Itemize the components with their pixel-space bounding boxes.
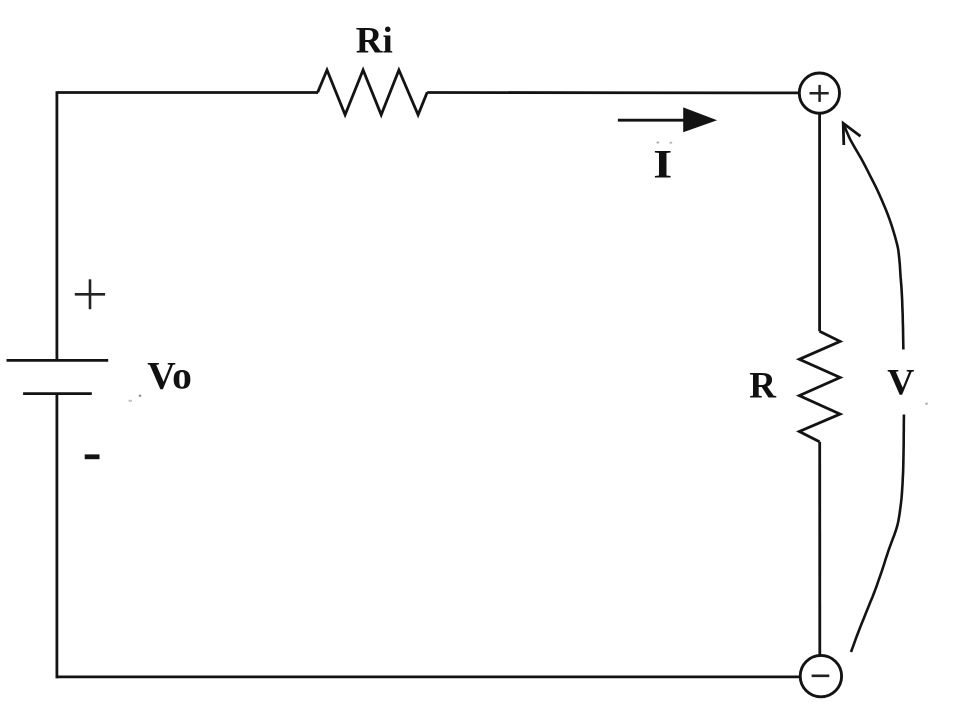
- svg-text:V: V: [887, 363, 914, 404]
- wire top-left horizontal segment: [57, 91, 318, 94]
- wire top-right horizontal segment: [427, 91, 800, 94]
- battery Vo top plate: [7, 359, 109, 362]
- node terminal - (bottom right): [800, 655, 841, 696]
- minus polarity mark of battery Vo: [85, 454, 100, 459]
- wire right vertical upper segment: [818, 113, 821, 331]
- node terminal + (top right): [799, 73, 839, 113]
- wire bottom horizontal: [56, 676, 801, 679]
- faint speck near V arc: [925, 403, 927, 405]
- voltage arc arrow V: [843, 123, 904, 652]
- svg-text:I: I: [653, 141, 672, 186]
- battery Vo bottom plate: [23, 392, 92, 395]
- wire left vertical lower segment: [56, 394, 59, 679]
- wire left vertical upper segment: [56, 91, 59, 360]
- svg-text:Ri: Ri: [356, 21, 393, 62]
- svg-text:R: R: [749, 365, 777, 406]
- svg-text:Vo: Vo: [147, 354, 192, 398]
- resistor R: [799, 331, 840, 442]
- current arrow I: [618, 119, 690, 122]
- white gap for V label: [883, 350, 923, 415]
- plus polarity mark of battery Vo: [75, 279, 105, 309]
- label I: [653, 141, 672, 186]
- faint specks below current arrow: [657, 142, 660, 144]
- wire right vertical lower segment: [818, 442, 821, 656]
- resistor Ri: [318, 70, 428, 115]
- faint speck near Vo: [139, 395, 141, 397]
- arrowhead of voltage arc: [843, 123, 860, 145]
